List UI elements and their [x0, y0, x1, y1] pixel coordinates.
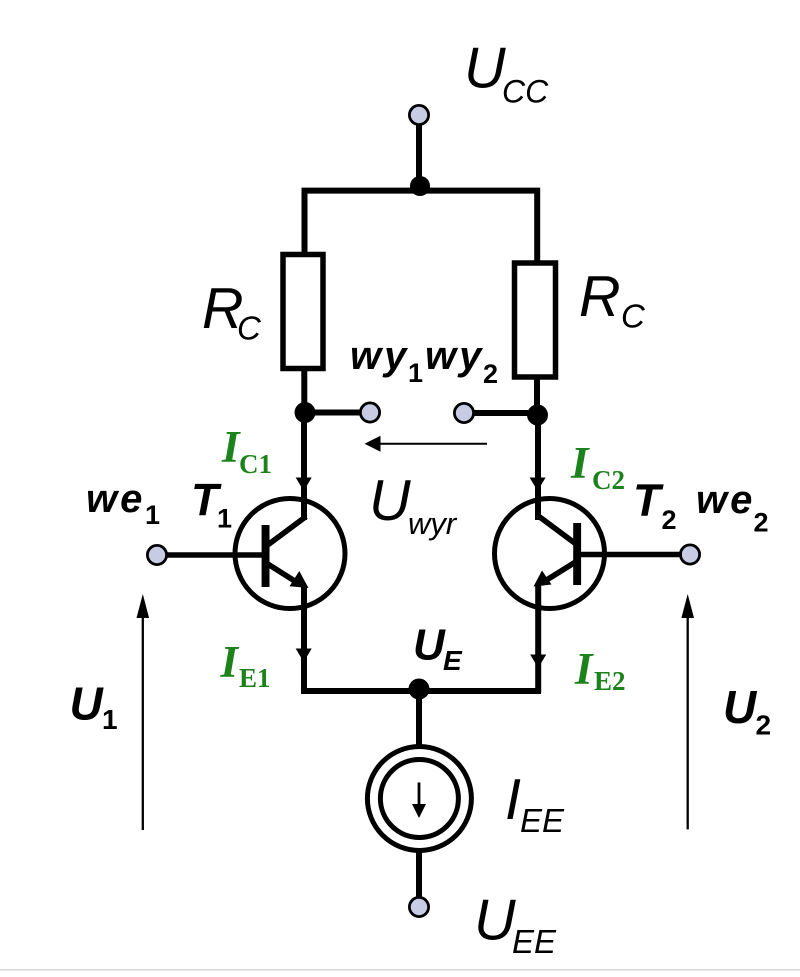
node: left collector junction [295, 402, 316, 423]
svg-text:U: U [413, 621, 446, 670]
svg-text:CC: CC [502, 74, 549, 110]
svg-text:U: U [369, 469, 411, 533]
svg-text:I: I [574, 644, 594, 694]
svg-text:E1: E1 [239, 663, 271, 693]
arrow: IE2 on right emitter wire [530, 655, 546, 669]
svg-text:I: I [570, 438, 590, 488]
svg-text:R: R [579, 265, 621, 329]
svg-text:wy: wy [425, 334, 484, 378]
svg-text:EE: EE [520, 802, 565, 839]
svg-text:U: U [464, 37, 506, 101]
node: emitter junction UE [409, 679, 430, 700]
svg-text:C1: C1 [239, 449, 272, 479]
svg-text:2: 2 [483, 359, 498, 389]
node: top supply junction [410, 176, 430, 196]
svg-text:I: I [505, 768, 521, 832]
wire: bottom emitter rail [301, 688, 541, 694]
wire: emitter node down to current source [416, 690, 422, 750]
svg-text:1: 1 [408, 358, 423, 388]
wire: left resistor bottom to left collector node [301, 368, 307, 416]
terminal Ucc [409, 105, 428, 124]
svg-text:2: 2 [662, 505, 677, 535]
wire: right resistor bottom to right collector node [534, 376, 540, 419]
svg-text:2: 2 [754, 507, 769, 537]
terminal Uee [409, 897, 428, 916]
arrow: U2 voltage [681, 594, 694, 829]
wire: right collector [535, 415, 541, 520]
wire: left node to wy1 terminal [305, 410, 364, 416]
wire: left emitter down to bottom rail [301, 586, 307, 693]
arrow: IE1 on left emitter wire [296, 649, 312, 663]
arrow: IC1 on left collector wire [296, 478, 312, 492]
svg-text:U: U [70, 677, 105, 729]
svg-text:C: C [237, 310, 262, 347]
svg-text:I: I [221, 422, 241, 472]
wire: Ucc terminal to top node [416, 122, 422, 190]
transistor T2 [495, 499, 683, 609]
svg-text:wyr: wyr [408, 506, 458, 541]
svg-text:we: we [696, 478, 755, 522]
resistor RC right [515, 263, 556, 377]
svg-text:1: 1 [102, 704, 118, 735]
svg-text:T: T [633, 475, 664, 526]
arrow: IC2 on right collector wire [530, 478, 546, 492]
svg-text:U: U [474, 888, 516, 952]
node: right collector junction [527, 405, 548, 426]
resistor RC left [283, 255, 323, 369]
svg-text:1: 1 [217, 504, 232, 534]
wire: top rail from left resistor over to right resistor [305, 191, 538, 263]
wire: current source to Uee terminal [416, 848, 422, 900]
terminal wy2 [454, 403, 473, 422]
arrow: Uwyr between wy2 and wy1 [365, 436, 488, 452]
svg-text:we: we [86, 477, 145, 521]
svg-text:E2: E2 [594, 666, 626, 696]
wire: left collector [301, 413, 307, 521]
transistor T1 [166, 499, 345, 609]
svg-text:E: E [443, 645, 463, 676]
svg-text:I: I [220, 637, 240, 687]
wire: right emitter down to bottom rail [535, 584, 541, 693]
svg-text:C2: C2 [592, 465, 625, 495]
svg-text:wy: wy [350, 334, 409, 378]
wire: wy2 terminal to right node [470, 410, 537, 416]
svg-text:2: 2 [756, 709, 772, 740]
svg-text:C: C [621, 298, 646, 335]
svg-text:1: 1 [145, 500, 160, 530]
terminal wy1 [360, 403, 379, 422]
svg-text:U: U [723, 681, 758, 733]
svg-text:EE: EE [512, 923, 557, 960]
terminal we2 [680, 545, 699, 564]
arrow: U1 voltage [137, 594, 150, 830]
current source IEE [367, 747, 471, 851]
terminal we1 [147, 545, 166, 564]
